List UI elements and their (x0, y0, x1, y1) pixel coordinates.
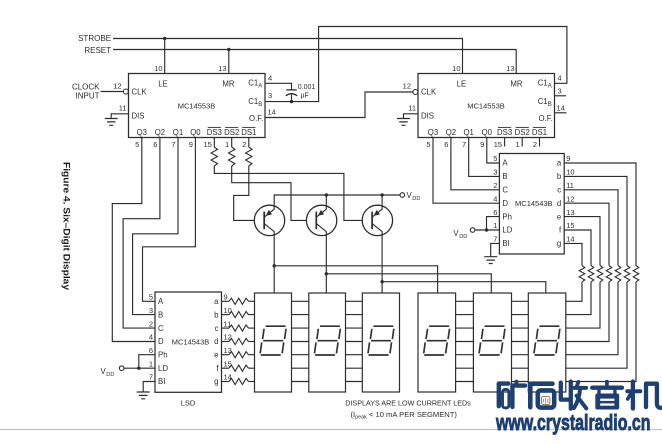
display DS3 (7-segment LED) (362, 293, 399, 392)
wire resistor to display 1 segment b (249, 314, 255, 316)
resistor R_DS3 (211, 147, 217, 166)
svg-text:C1: C1 (538, 97, 548, 106)
wire resistor to display 1 segment a (249, 300, 255, 302)
svg-text:LSD: LSD (181, 399, 196, 408)
wire C1A1 stub to capacitor (265, 83, 292, 90)
wire VDD to LD2 and Ph2 (475, 229, 500, 231)
junction VDD/Ph1 (137, 367, 140, 370)
svg-text:10: 10 (566, 168, 574, 177)
wire STROBE branch to LE of left MC14553B (164, 39, 166, 74)
svg-text:INPUT: INPUT (76, 92, 100, 101)
svg-text:14: 14 (268, 108, 276, 117)
svg-text:15: 15 (566, 221, 574, 230)
svg-text:11: 11 (566, 181, 574, 190)
transistor Q2 (PNP digit driver) (306, 205, 336, 235)
wire resistor to display 1 segment f (249, 367, 255, 369)
resistor Rd (right bank) (606, 266, 612, 282)
svg-text:MR: MR (510, 79, 522, 88)
resistor Ra (left bank) (229, 298, 249, 304)
svg-text:6: 6 (444, 140, 448, 149)
svg-text:10: 10 (154, 64, 162, 73)
svg-text:g: g (557, 239, 561, 248)
wire DS1 stub IC1 (248, 138, 250, 148)
wire resistor to display 1 segment d (249, 341, 255, 343)
transistor Q3 (PNP digit driver) (362, 205, 392, 235)
svg-text:C1: C1 (538, 78, 548, 87)
wire resistor to display 6 segment a (566, 282, 636, 382)
ground (U3 BI) (137, 392, 150, 399)
wire DIS2 to ground (404, 114, 419, 119)
resistor R_DS1 (246, 147, 252, 166)
svg-text:7: 7 (462, 140, 466, 149)
svg-text:www.crystalradio.cn: www.crystalradio.cn (495, 410, 650, 435)
display DS2 (7-segment LED) (309, 293, 346, 392)
svg-text:B: B (502, 172, 507, 181)
svg-text:C1: C1 (248, 78, 258, 87)
digit glyph DS4 (423, 326, 449, 355)
svg-text:1: 1 (493, 221, 497, 230)
svg-text:Q3: Q3 (428, 128, 438, 137)
resistor Rd (left bank) (229, 338, 249, 344)
wire segment bus display 2 to 3 (346, 301, 363, 381)
svg-text:6: 6 (149, 346, 153, 355)
svg-text:DS1: DS1 (532, 128, 547, 137)
svg-text:0.001: 0.001 (298, 84, 316, 91)
svg-text:3: 3 (558, 86, 562, 95)
junction Q3 collector tee (380, 280, 383, 283)
digit glyph DS3 (368, 326, 394, 355)
svg-text:B: B (158, 310, 163, 319)
resistor Rc (right bank) (615, 266, 621, 282)
wire resistor to display 6 segment e (566, 282, 600, 328)
svg-text:4: 4 (149, 333, 153, 342)
resistor Rc (left bank) (229, 325, 249, 331)
wire Q2(IC1) to C of LSD decoder (123, 138, 160, 329)
svg-text:a: a (214, 297, 219, 306)
wire segment c (U4) to resistor column (564, 190, 618, 266)
wire CLOCK INPUT to CLK pin 12 (101, 91, 124, 93)
junction Q2 collector tee (325, 272, 328, 275)
svg-text:Q1: Q1 (463, 128, 473, 137)
svg-text:11: 11 (408, 104, 416, 113)
ground (U2 DIS) (397, 119, 410, 126)
junction VDD rail / Q3 emitter (380, 193, 383, 196)
wire DS3 stub IC1 (213, 138, 215, 148)
digit glyph DS6 (534, 326, 560, 355)
ground (U1 DIS) (105, 119, 118, 126)
wire Q1 collector to displays 1 and 4 (273, 236, 275, 293)
wire segment e (U3) stub (222, 354, 230, 356)
wire segment e (U4) to resistor column (564, 217, 600, 266)
wire Q2 collector to displays 2 and 5 (325, 236, 327, 293)
svg-text:2: 2 (149, 319, 153, 328)
svg-text:2: 2 (242, 140, 246, 149)
svg-text:14: 14 (557, 103, 565, 112)
svg-text:d: d (214, 337, 218, 346)
ground (U4 BI) (484, 257, 497, 264)
svg-text:CLK: CLK (421, 88, 437, 97)
display DS6 (7-segment LED) (528, 293, 566, 392)
wire segment f (U3) stub (222, 367, 230, 369)
svg-text:LD: LD (502, 226, 512, 235)
svg-text:13: 13 (506, 64, 514, 73)
wire Q2(IC2) to C of right decoder (451, 138, 500, 190)
digit glyph DS1 (260, 326, 286, 355)
svg-text:11: 11 (119, 104, 127, 113)
svg-text:Ph: Ph (502, 212, 512, 221)
svg-text:15: 15 (203, 140, 211, 149)
svg-text:e: e (557, 212, 561, 221)
wire Q0(IC1) to A of LSD decoder (143, 138, 196, 302)
svg-text:STROBE: STROBE (78, 34, 111, 43)
svg-text:B: B (548, 102, 552, 108)
svg-text:2: 2 (533, 140, 537, 149)
svg-text:O.F.: O.F. (249, 114, 263, 123)
op IC U3 MC14543B (LSD decoder) (155, 292, 222, 392)
resistor Re (right bank) (597, 266, 603, 282)
wire DS2 to Q2 transistor base (232, 166, 317, 220)
wire resistor to display 6 segment b (566, 282, 627, 368)
svg-text:Q2: Q2 (446, 128, 456, 137)
display DS1 (7-segment LED) (255, 293, 292, 392)
wire segment d (U4) to resistor column (564, 203, 609, 265)
svg-text:C: C (158, 324, 164, 333)
svg-text:MR: MR (222, 79, 234, 88)
svg-text:2: 2 (493, 181, 497, 190)
svg-text:9: 9 (480, 140, 484, 149)
svg-text:B: B (258, 102, 262, 108)
svg-text:3: 3 (268, 91, 272, 100)
svg-text:DS2: DS2 (224, 128, 239, 137)
wire resistor to display 6 segment d (566, 282, 609, 342)
junction RESET/MR1 (227, 48, 230, 51)
junction VDD/Ph2 (485, 228, 488, 231)
junction capacitor / C1B wire (290, 100, 293, 103)
svg-text:e: e (214, 350, 218, 359)
wire segment bus display 1 to 2 (292, 301, 309, 381)
wire O.F.2 stub (555, 112, 567, 114)
wire resistor to display 1 segment g (249, 381, 255, 383)
svg-text:D: D (158, 337, 164, 346)
svg-text:12: 12 (566, 194, 574, 203)
svg-text:7: 7 (149, 373, 153, 382)
resistor Rf (right bank) (588, 266, 594, 282)
svg-text:3: 3 (149, 306, 153, 315)
svg-text:7: 7 (171, 140, 175, 149)
wire DIS1 to ground (111, 114, 128, 119)
wire segment bus display 5 to 6 (512, 301, 529, 381)
display DS4 (7-segment LED) (418, 293, 456, 392)
svg-text:C: C (502, 186, 508, 195)
resistor Rb (right bank) (624, 266, 630, 282)
wire segment a (U3) stub (222, 300, 230, 302)
junction STROBE/LE1 (163, 37, 166, 40)
svg-text:c: c (557, 186, 561, 195)
svg-text:CLK: CLK (132, 88, 148, 97)
wire C1B2 stub (555, 95, 567, 97)
wire Q3(IC2) to D of right decoder (433, 138, 499, 204)
svg-text:c: c (215, 324, 219, 333)
svg-text:4: 4 (268, 73, 272, 82)
wire RESET branch to MR of left MC14553B (228, 50, 230, 74)
digit glyph DS5 (479, 326, 505, 355)
svg-text:b: b (557, 172, 562, 181)
svg-text:9: 9 (189, 140, 193, 149)
svg-text:7: 7 (493, 235, 497, 244)
svg-text:MC14543B: MC14543B (515, 199, 553, 208)
svg-text:Figure 4. Six–Digit Display: Figure 4. Six–Digit Display (61, 162, 72, 291)
wire resistor to display 6 segment g (566, 282, 582, 301)
svg-text:O.F.: O.F. (539, 114, 553, 123)
svg-text:D: D (502, 199, 508, 208)
svg-text:LE: LE (457, 79, 467, 88)
wire segment g (U4) to resistor column (564, 243, 582, 265)
svg-text:9: 9 (224, 293, 228, 302)
svg-text:9: 9 (566, 154, 570, 163)
svg-text:DISPLAYS ARE LOW CURRENT LEDs: DISPLAYS ARE LOW CURRENT LEDs (345, 398, 471, 407)
svg-text:DS2: DS2 (515, 128, 530, 137)
wire O.F.1 to CLK2 (265, 92, 413, 118)
wire DS3 stub IC2 (504, 138, 506, 147)
svg-text:12: 12 (403, 82, 411, 91)
svg-text:a: a (557, 159, 562, 168)
wire BI2 to ground (491, 243, 500, 256)
wire DS2 stub IC1 (231, 138, 233, 148)
CLK bubble IC1 (123, 89, 128, 94)
svg-text:d: d (557, 199, 561, 208)
svg-text:Q0: Q0 (482, 128, 493, 137)
power VDD terminal (transistors) (400, 193, 405, 198)
svg-text:1: 1 (149, 359, 153, 368)
resistor R_DS2 (229, 147, 235, 166)
svg-text:DIS: DIS (132, 111, 145, 120)
wire Q0(IC2) to A of right decoder (487, 138, 500, 164)
wire DS1 stub IC2 (539, 138, 541, 147)
svg-text:4: 4 (558, 73, 562, 82)
svg-text:13: 13 (218, 64, 226, 73)
wire resistor to display 6 segment f (566, 282, 591, 315)
wire Q1(IC2) to B of right decoder (469, 138, 500, 177)
svg-text:6: 6 (493, 208, 497, 217)
svg-text:DS3: DS3 (497, 128, 512, 137)
svg-text:CLOCK: CLOCK (72, 83, 100, 92)
resistor Rb (left bank) (229, 312, 249, 318)
wire resistor to display 1 segment e (249, 354, 255, 356)
svg-text:1: 1 (225, 140, 229, 149)
resistor Re (left bank) (229, 352, 249, 358)
wire RESET to MR pins (113, 50, 516, 74)
svg-text:5: 5 (135, 140, 139, 149)
wire Q1(IC1) to B of LSD decoder (133, 138, 178, 315)
wire resistor to display 1 segment c (249, 327, 255, 329)
display DS5 (7-segment LED) (473, 293, 511, 392)
svg-text:Ph: Ph (158, 350, 168, 359)
svg-text:LD: LD (158, 364, 168, 373)
svg-text:1: 1 (516, 140, 520, 149)
wire STROBE to LE pins (113, 39, 463, 74)
svg-text:b: b (214, 310, 219, 319)
op IC U2 MC14553B (right counter) (418, 74, 555, 138)
svg-text:Q0: Q0 (190, 128, 201, 137)
wire DS1 to Q1 transistor base (234, 166, 265, 220)
wire segment bus display 4 to 5 (456, 301, 474, 381)
wire segment c (U3) stub (222, 327, 230, 329)
wire VDD rail (emitters) (274, 195, 400, 205)
svg-text:LE: LE (158, 79, 168, 88)
op IC U1 MC14553B (left counter) (129, 74, 266, 138)
svg-text:Q3: Q3 (137, 128, 147, 137)
resistor Rg (right bank) (579, 266, 585, 282)
wire VDD to LD1 and Ph1 (124, 367, 155, 369)
svg-text:A: A (502, 159, 508, 168)
svg-text:6: 6 (153, 140, 157, 149)
svg-text:MC14543B: MC14543B (172, 337, 210, 346)
svg-text:15: 15 (494, 140, 502, 149)
wire BI1 to ground (143, 382, 155, 392)
svg-text:µF: µF (301, 93, 309, 100)
transistor Q1 (PNP digit driver) (254, 205, 284, 235)
svg-text:13: 13 (566, 208, 574, 217)
wire segment a (U4) to resistor column (564, 163, 636, 266)
wire segment d (U3) stub (222, 341, 230, 343)
svg-text:RESET: RESET (84, 46, 111, 55)
CLK bubble IC2 (413, 90, 418, 95)
op IC U4 MC14543B (right decoder) (499, 154, 564, 255)
svg-text:12: 12 (113, 82, 121, 91)
svg-text:5: 5 (426, 140, 430, 149)
digit glyph DS2 (314, 326, 340, 355)
resistor Rg (left bank) (229, 378, 249, 384)
svg-text:BI: BI (158, 377, 165, 386)
svg-text:DD: DD (459, 234, 467, 240)
resistor Rf (left bank) (229, 365, 249, 371)
junction VDD rail / Q2 emitter (325, 193, 328, 196)
svg-text:4: 4 (493, 194, 497, 203)
wire segment g (U3) stub (222, 381, 230, 383)
svg-text:A: A (158, 297, 164, 306)
svg-text:g: g (214, 377, 218, 386)
junction Q1 collector tee (273, 264, 276, 267)
svg-text:DD: DD (412, 196, 420, 202)
svg-text:Q2: Q2 (155, 128, 165, 137)
wire segment b (U3) stub (222, 314, 230, 316)
svg-text:10: 10 (452, 64, 460, 73)
horizontal rule (page bottom) (0, 429, 662, 431)
svg-text:5: 5 (149, 293, 153, 302)
svg-text:MC14553B: MC14553B (467, 102, 505, 111)
watermark logo: Chinese characters (crystalradio) (499, 382, 661, 410)
svg-text:DS1: DS1 (241, 128, 256, 137)
wire C1B1 to C1A2 (top rail) (265, 27, 567, 102)
wire Q3(IC1) to D of LSD decoder (112, 138, 155, 342)
svg-text:5: 5 (493, 154, 497, 163)
svg-text:DIS: DIS (421, 111, 434, 120)
svg-text:A: A (548, 83, 552, 89)
wire DS3 to Q3 transistor base (214, 166, 372, 220)
resistor Ra (right bank) (633, 266, 639, 282)
svg-text:C1: C1 (248, 97, 258, 106)
wire Q3 collector to displays 3 and 6 (381, 236, 383, 293)
wire DS2 stub IC2 (521, 138, 523, 147)
svg-text:DD: DD (106, 372, 114, 378)
wire segment f (U4) to resistor column (564, 230, 591, 266)
svg-text:BI: BI (502, 239, 509, 248)
capacitor C1 0.001 uF (286, 89, 297, 91)
wire resistor to display 6 segment c (566, 282, 618, 355)
svg-text:DS3: DS3 (207, 128, 222, 137)
svg-text:Q1: Q1 (173, 128, 183, 137)
svg-text:3: 3 (493, 168, 497, 177)
wire segment b (U4) to resistor column (564, 176, 627, 265)
svg-text:MC14553B: MC14553B (178, 102, 216, 111)
svg-text:A: A (258, 83, 262, 89)
svg-text:14: 14 (566, 235, 574, 244)
